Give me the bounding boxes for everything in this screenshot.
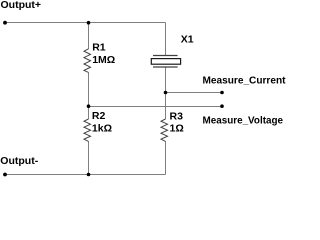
wire left branch lower: [88, 141, 90, 174]
resistor R1: [84, 49, 91, 73]
svg-text:Measure_Current: Measure_Current: [203, 75, 286, 87]
crystal X1: [151, 56, 180, 68]
wire right branch middle X1 to R3: [165, 68, 167, 120]
wire Measure_Current: [166, 92, 223, 94]
svg-text:Output+: Output+: [1, 0, 42, 11]
wire right branch lower: [165, 141, 167, 174]
svg-text:Measure_Voltage: Measure_Voltage: [203, 114, 284, 126]
node junction bottom: [87, 173, 91, 177]
svg-text:R2: R2: [92, 110, 106, 122]
svg-text:R3: R3: [170, 110, 184, 122]
node Measure_Current terminal dot: [220, 91, 224, 95]
node Measure_Voltage terminal dot: [220, 104, 224, 108]
wire left branch upper: [88, 23, 90, 50]
resistor R3: [161, 119, 168, 141]
node Output+ terminal dot: [3, 21, 7, 25]
svg-text:1MΩ: 1MΩ: [92, 54, 115, 66]
wire left branch middle: [88, 72, 90, 119]
svg-text:R1: R1: [92, 41, 106, 53]
wire Measure_Voltage: [89, 106, 223, 108]
wire top corner down to X1: [165, 23, 167, 56]
node junction Measure_Voltage: [87, 104, 91, 108]
wire Output+ top rail: [5, 22, 166, 24]
svg-text:Output-: Output-: [0, 155, 38, 167]
wire Output- bottom rail: [5, 174, 166, 176]
svg-text:1Ω: 1Ω: [170, 123, 184, 135]
svg-text:X1: X1: [181, 34, 194, 46]
resistor R2: [84, 119, 91, 141]
node junction top: [87, 21, 91, 25]
node Output- terminal dot: [3, 173, 7, 177]
svg-text:1kΩ: 1kΩ: [92, 122, 112, 134]
node junction Measure_Current: [164, 91, 168, 95]
